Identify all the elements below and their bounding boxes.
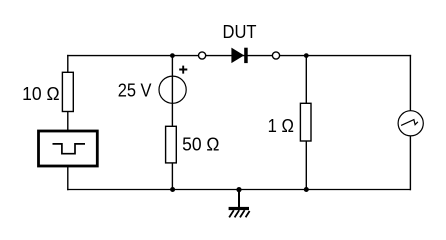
svg-text:25 V: 25 V [118, 79, 152, 100]
svg-text:50 Ω: 50 Ω [182, 134, 220, 155]
svg-text:10 Ω: 10 Ω [22, 83, 60, 104]
svg-text:1 Ω: 1 Ω [268, 115, 294, 136]
svg-text:DUT: DUT [223, 21, 257, 42]
